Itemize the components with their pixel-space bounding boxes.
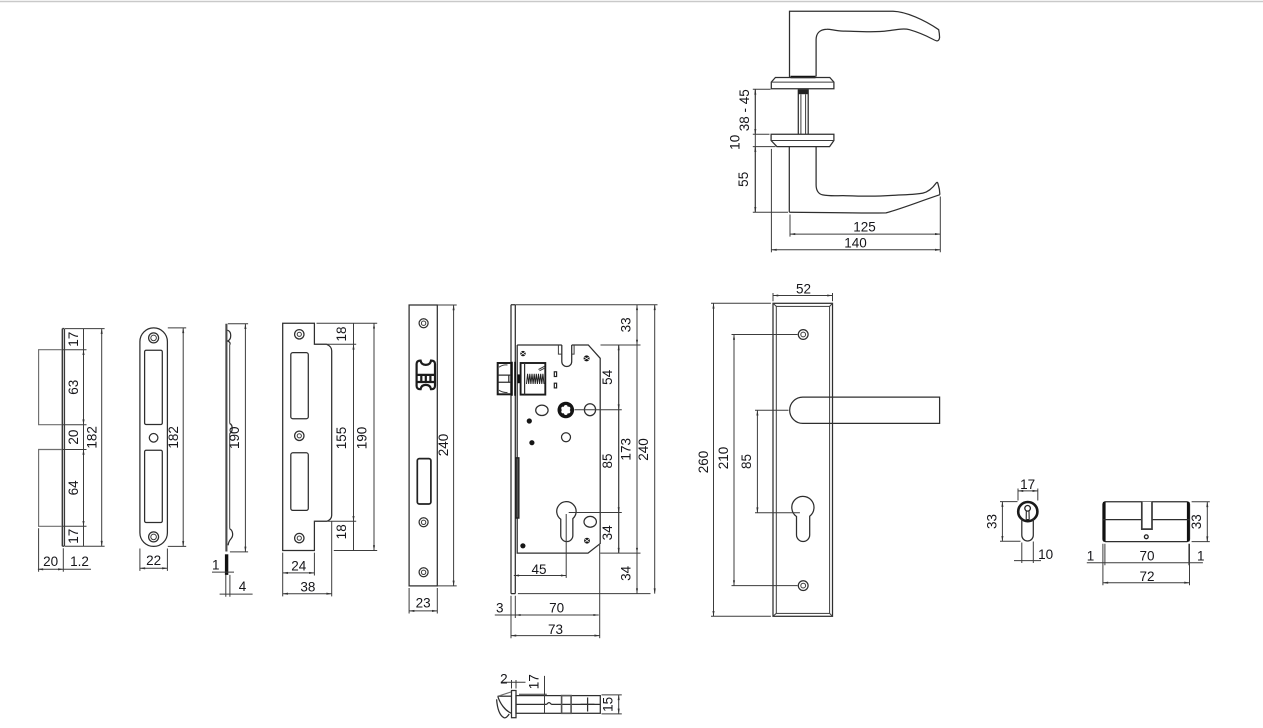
bottom screw hole (149, 532, 159, 542)
latch spring (527, 374, 545, 384)
svg-text:20: 20 (43, 554, 58, 569)
dimension chain 17,63,20,64,17 (83, 329, 85, 547)
svg-text:33: 33 (619, 317, 634, 332)
dimension 140 (770, 149, 772, 252)
svg-text:173: 173 (619, 438, 634, 461)
dimension 210 (732, 335, 798, 586)
dimension 20 (box depth) (38, 568, 63, 570)
svg-text:1: 1 (1197, 548, 1205, 563)
top screw hole (419, 319, 428, 328)
top border line (0, 1, 1263, 3)
notch side tabs (558, 345, 574, 354)
cylinder centre vertical extension (565, 514, 567, 578)
dimension 23 (409, 588, 437, 614)
lower lever handle (789, 147, 940, 212)
bottom screw hole (798, 581, 808, 591)
bottom tab bump (228, 529, 233, 546)
case right edge extension down (599, 545, 601, 638)
faceplate lower extensions (511, 596, 515, 639)
dimension 17 (1018, 489, 1038, 501)
svg-text:4: 4 (239, 579, 247, 594)
plate inner bevel (776, 306, 829, 613)
latch bolt in cutout (417, 361, 435, 390)
middle hole (149, 434, 158, 443)
svg-text:140: 140 (844, 236, 867, 251)
dimension chain 33,173,34 (636, 305, 638, 594)
upper latch cutout (291, 353, 309, 419)
bottom extensions (283, 553, 315, 597)
dimension 182 (101, 329, 103, 547)
latch tail block (518, 374, 521, 383)
latch body in case (521, 363, 546, 395)
dimension 260 (711, 303, 771, 616)
svg-text:55: 55 (736, 172, 751, 187)
latch nose (498, 695, 512, 697)
bottom screw hole (419, 568, 428, 577)
svg-text:38 - 45: 38 - 45 (737, 89, 752, 131)
svg-text:23: 23 (416, 596, 431, 611)
svg-text:70: 70 (1139, 549, 1154, 564)
screw posts (filled dots) (520, 351, 590, 549)
svg-text:190: 190 (355, 427, 370, 450)
svg-text:33: 33 (1189, 514, 1204, 529)
lock case outline (517, 345, 600, 553)
svg-text:190: 190 (227, 426, 242, 449)
dimension 17 (519, 693, 547, 695)
end caps (1103, 502, 1106, 541)
svg-text:22: 22 (146, 553, 161, 568)
top tab bump (228, 330, 231, 344)
svg-text:155: 155 (334, 427, 349, 450)
svg-text:85: 85 (600, 453, 615, 468)
top screw hole (295, 330, 304, 339)
latch body (516, 696, 600, 714)
svg-text:125: 125 (853, 220, 876, 235)
svg-text:2: 2 (500, 672, 508, 687)
svg-text:17: 17 (66, 332, 81, 347)
upper latch cutout (145, 350, 163, 424)
dimension 190 (228, 324, 248, 552)
latch opening in faceplate (512, 362, 515, 396)
dimension 52 (773, 293, 833, 301)
dimension chain 18,155,18 (353, 323, 355, 550)
svg-text:1: 1 (1087, 548, 1095, 563)
follower left hole (ellipse) (536, 405, 548, 415)
dimension 2 (512, 680, 517, 689)
dimension chain 54,85,34 (618, 345, 620, 553)
deadbolt cutout (417, 459, 431, 504)
extension lines 18/155/18 (314, 323, 377, 550)
dimension 73 (511, 635, 600, 637)
svg-text:72: 72 (1139, 569, 1154, 584)
bottom screw hole (295, 533, 304, 542)
small square holes (554, 372, 556, 377)
lower bolt cutout (291, 453, 309, 511)
thin plate (62, 329, 64, 547)
dimension 70 and 1,1 (1087, 562, 1203, 564)
middle tab bump (230, 424, 232, 434)
svg-text:70: 70 (549, 601, 564, 616)
svg-text:17: 17 (526, 674, 541, 689)
dimension chain line 38-45,10,55 (754, 89, 756, 212)
upper dust box (39, 350, 62, 425)
svg-text:33: 33 (985, 514, 1000, 529)
latch bolt head (498, 363, 512, 394)
cylinder centre line to dimension (569, 512, 622, 514)
dimension 70 (515, 614, 598, 616)
main plate edge (225, 324, 227, 552)
lower rose (bevelled washer) (771, 134, 834, 146)
svg-text:182: 182 (84, 426, 99, 449)
svg-text:240: 240 (436, 434, 451, 457)
cam notch (1142, 502, 1152, 529)
dimension 15 (602, 695, 622, 714)
middle screw hole (419, 518, 428, 527)
svg-text:85: 85 (739, 454, 754, 469)
svg-text:52: 52 (796, 281, 811, 296)
plate outline with bent lip (283, 323, 332, 550)
follower right hole (584, 404, 595, 416)
upper handle neck shadow line (791, 76, 816, 79)
cylinder body circle (1018, 502, 1037, 521)
dimension 190 (373, 323, 375, 550)
svg-text:24: 24 (291, 559, 307, 574)
latch head band (498, 375, 512, 382)
dimension 33 (1000, 502, 1021, 542)
svg-text:34: 34 (619, 565, 634, 581)
svg-text:1.2: 1.2 (70, 554, 89, 569)
dimension 1.2 (plate thickness) (63, 568, 91, 570)
body mid line with jog (516, 703, 600, 705)
svg-text:64: 64 (66, 480, 81, 496)
right side extension lines (516, 305, 658, 553)
svg-text:20: 20 (66, 430, 81, 445)
svg-text:54: 54 (600, 369, 615, 385)
svg-text:63: 63 (66, 380, 81, 395)
dimension 45 (backset) (514, 575, 566, 577)
svg-text:34: 34 (600, 525, 615, 541)
cylinder keyhole cutout (557, 502, 576, 542)
plate outline (773, 303, 833, 616)
spindle (798, 89, 808, 134)
dimension 33 (1192, 502, 1210, 542)
hole right of keyhole (584, 516, 596, 527)
svg-text:240: 240 (636, 438, 651, 461)
keyway (1025, 506, 1031, 512)
cross pin (581, 698, 595, 712)
hole below follower (562, 433, 571, 442)
dimension 85 (755, 410, 800, 513)
svg-text:18: 18 (334, 326, 349, 341)
svg-text:17: 17 (66, 529, 81, 544)
lower lever underside (789, 195, 940, 213)
cylinder body (1103, 502, 1190, 542)
dimension 240 overall (654, 305, 656, 594)
spring retainer marks (539, 366, 546, 371)
lip width extension lines (226, 575, 230, 597)
top screw hole (798, 330, 808, 340)
dimension 1 (thickness) (212, 571, 234, 573)
extension lines left chain (63, 329, 105, 547)
dimension 24 (283, 572, 315, 574)
svg-text:45: 45 (531, 562, 546, 577)
faceplate bottom extension (518, 593, 651, 595)
svg-text:15: 15 (600, 697, 615, 712)
latch flange (512, 691, 517, 718)
faceplate edge-on (511, 305, 515, 594)
svg-text:182: 182 (166, 426, 181, 449)
plate outline (stadium) (140, 328, 168, 547)
body split line (1103, 519, 1190, 521)
svg-text:38: 38 (300, 579, 315, 594)
svg-text:260: 260 (696, 451, 711, 474)
top screw hole (149, 333, 159, 343)
svg-text:10: 10 (728, 135, 743, 150)
follower centre line to dimension (575, 409, 622, 411)
dimension 3 (faceplate thickness) (495, 614, 524, 616)
dimension 10 (1022, 542, 1034, 564)
dimension 72 (1103, 582, 1190, 584)
dimension 22 (140, 549, 168, 571)
lower bolt cutout (145, 450, 163, 522)
dimension 4 (lip) (220, 593, 253, 595)
plate thickness black bar (225, 554, 228, 575)
svg-text:3: 3 (496, 601, 504, 616)
middle screw hole (295, 431, 304, 440)
dimension 38-45 / 10 / 55 extension lines (753, 89, 788, 212)
upper rose (bevelled washer) (771, 78, 834, 89)
folded lip line (229, 345, 231, 529)
lower dust box (39, 450, 62, 527)
follower (spindle hole with star) (558, 402, 575, 419)
dimension 240 (438, 305, 457, 586)
spindle top block (798, 89, 808, 94)
bottom extensions (39, 528, 64, 572)
dimension 182 (168, 328, 186, 547)
keyhole cutout (792, 496, 814, 541)
dimension 125 (790, 197, 940, 253)
dimension 38 (331, 521, 333, 596)
cylinder stem (1022, 519, 1034, 541)
lever handle (plan) (790, 397, 940, 423)
svg-text:17: 17 (1020, 477, 1035, 492)
svg-text:1: 1 (212, 558, 220, 573)
spring retainer band (562, 696, 572, 714)
upper lever handle (790, 11, 940, 77)
extensions below (1103, 544, 1190, 586)
svg-text:10: 10 (1038, 547, 1053, 562)
fixing hole (1144, 535, 1148, 539)
svg-text:210: 210 (716, 447, 731, 470)
latch head bevel marks (499, 365, 508, 393)
spindle hub notch (562, 345, 572, 367)
deadbolt slot at faceplate (516, 458, 519, 518)
faceplate outline (409, 305, 437, 586)
svg-text:73: 73 (548, 622, 563, 637)
svg-text:18: 18 (334, 524, 349, 539)
